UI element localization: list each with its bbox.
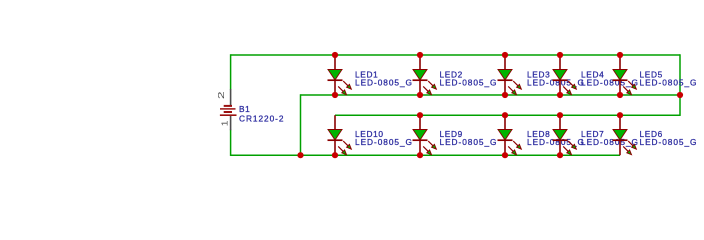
wire: bottom bus net <box>231 154 620 156</box>
junction at (560,95) middle bus 1 <box>557 92 563 98</box>
LED LED2 <box>413 55 437 95</box>
junction at (505,115) middle bus 2 <box>502 112 508 118</box>
junction at (300,155) bottom bus / left vertical <box>297 152 303 158</box>
wire: right vertical from top bus to middle bus 2 <box>679 54 681 116</box>
junction at (560,155) bottom bus <box>557 152 563 158</box>
junction at (505,95) middle bus 1 <box>502 92 508 98</box>
wire: top bus net <box>231 54 680 56</box>
battery plate short top <box>224 105 232 107</box>
LED LED7 <box>553 115 577 155</box>
svg-text:LED-0805_G: LED-0805_G <box>527 78 585 88</box>
battery pin 2 lead <box>230 89 232 106</box>
svg-text:LED-0805_G: LED-0805_G <box>527 137 585 147</box>
LED LED10 <box>328 115 352 155</box>
LED LED4 <box>553 55 577 95</box>
svg-text:LED-0805_G: LED-0805_G <box>640 78 698 88</box>
wire: left vertical from middle bus 1 to bottom bus <box>300 94 302 155</box>
junction at (505,155) bottom bus <box>502 152 508 158</box>
junction at (560,115) middle bus 2 <box>557 112 563 118</box>
junction at (335,95) middle bus 1 <box>332 92 338 98</box>
wire: middle bus 2 (LED10-LED6 anode row) <box>335 114 680 116</box>
junction at (620,55) top bus / LED5 anode <box>617 52 623 58</box>
junction at (335,55) top bus / LED1 anode <box>332 52 338 58</box>
LED LED3 <box>498 55 522 95</box>
junction at (420,115) middle bus 2 <box>417 112 423 118</box>
svg-text:2: 2 <box>218 91 226 99</box>
svg-text:CR1220-2: CR1220-2 <box>239 114 284 124</box>
wire: battery bottom vertical <box>230 130 232 156</box>
svg-text:LED-0805_G: LED-0805_G <box>581 137 639 147</box>
battery plate long upper <box>220 108 236 110</box>
battery B1 <box>218 89 237 130</box>
LED LED5 <box>613 55 637 95</box>
wire: battery top vertical <box>230 54 232 89</box>
junction at (335,155) bottom bus <box>332 152 338 158</box>
junction at (420,95) middle bus 1 <box>417 92 423 98</box>
svg-text:LED-0805_G: LED-0805_G <box>640 137 698 147</box>
junction at (505,55) top bus / LED3 anode <box>502 52 508 58</box>
junction at (620,115) middle bus 2 <box>617 112 623 118</box>
junction at (420,55) top bus / LED2 anode <box>417 52 423 58</box>
svg-text:B1: B1 <box>239 104 250 114</box>
svg-text:1: 1 <box>220 120 229 126</box>
battery pin 1 lead <box>230 115 232 130</box>
junction at (620,95) middle bus 1 <box>617 92 623 98</box>
junction at (420,155) bottom bus <box>417 152 423 158</box>
battery plate short lower <box>224 111 232 113</box>
wire: middle bus 1 (LED1-LED5 cathode row) <box>301 94 681 96</box>
junction at (560,55) top bus / LED4 anode <box>557 52 563 58</box>
svg-text:LED-0805_G: LED-0805_G <box>440 78 498 88</box>
svg-text:LED-0805_G: LED-0805_G <box>355 78 413 88</box>
LED LED1 <box>328 55 352 95</box>
svg-text:LED-0805_G: LED-0805_G <box>355 137 413 147</box>
junction at (680,95) middle bus 1 / right vertical <box>677 92 683 98</box>
LED LED6 <box>613 115 637 155</box>
LED LED8 <box>498 115 522 155</box>
LED LED9 <box>413 115 437 155</box>
battery plate long bottom <box>220 114 237 116</box>
svg-text:LED-0805_G: LED-0805_G <box>440 137 498 147</box>
